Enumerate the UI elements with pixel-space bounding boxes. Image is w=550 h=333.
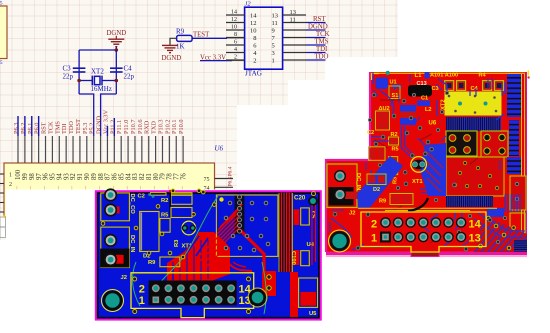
- svg-text:P6.5: P6.5: [228, 176, 234, 186]
- svg-text:3: 3: [272, 50, 275, 57]
- U6 right pins 75,74: [215, 178, 234, 180]
- svg-text:16MHz: 16MHz: [91, 85, 112, 93]
- node junction top right: [115, 48, 119, 52]
- pin 8: [226, 37, 245, 39]
- svg-text:J2: J2: [349, 211, 355, 217]
- svg-text:C20: C20: [294, 194, 306, 201]
- DC_CO connector: [101, 193, 130, 221]
- wire TEST to J2 pin8: [192, 37, 227, 39]
- svg-text:R9: R9: [176, 28, 185, 36]
- XT1 crystal: [182, 221, 196, 235]
- svg-text:C3: C3: [432, 86, 439, 92]
- svg-text:1: 1: [272, 58, 275, 65]
- svg-text:2: 2: [139, 284, 145, 296]
- svg-text:13: 13: [290, 9, 297, 16]
- svg-text:10: 10: [250, 28, 257, 35]
- svg-text:R5: R5: [161, 213, 169, 219]
- svg-text:XT2: XT2: [91, 68, 104, 76]
- DC_IN connector: [327, 164, 357, 208]
- svg-text:8: 8: [253, 35, 256, 42]
- U4 area: [294, 250, 300, 265]
- blue trace fan bottom right: [474, 216, 527, 252]
- pin 5: [283, 44, 306, 46]
- svg-text:8: 8: [234, 32, 237, 38]
- svg-text:11: 11: [290, 17, 296, 24]
- wire crystal right down to pin 88: [101, 94, 117, 136]
- U6 top pins: [13, 109, 187, 180]
- top edge partial silk boxes: [151, 193, 167, 196]
- svg-text:XT1: XT1: [412, 179, 423, 185]
- svg-text:S1: S1: [392, 93, 399, 99]
- crystal XT2: [79, 68, 116, 94]
- red band below stripes: [290, 272, 298, 317]
- svg-text:|: |: [44, 185, 45, 190]
- svg-text:6: 6: [253, 43, 257, 50]
- green ratsnest curves: [150, 196, 218, 298]
- svg-text:DGND: DGND: [162, 55, 182, 62]
- capacitor C3: [63, 65, 86, 81]
- ground DGND (under R9): [162, 45, 182, 62]
- svg-text:10: 10: [231, 25, 237, 31]
- red trace bars into J2: [173, 240, 208, 281]
- D2: [367, 174, 386, 185]
- svg-text:R4: R4: [479, 73, 487, 79]
- svg-text:5: 5: [272, 43, 275, 50]
- U5 box: [299, 278, 318, 307]
- svg-text:75: 75: [204, 177, 210, 183]
- pin 9: [283, 29, 306, 31]
- node junction mid left: [77, 79, 81, 83]
- svg-text:L2: L2: [425, 107, 432, 113]
- svg-text:U6: U6: [429, 120, 437, 126]
- svg-text:JTAG: JTAG: [245, 70, 262, 78]
- svg-text:14: 14: [231, 10, 237, 16]
- small window fragment at left edge over white: [0, 215, 5, 237]
- wire C3 branch vertical: [78, 50, 80, 94]
- svg-text:2: 2: [253, 58, 256, 65]
- white margin of red pcb image: [237, 80, 550, 285]
- svg-text:1K: 1K: [176, 43, 185, 51]
- svg-text:DGND: DGND: [308, 24, 328, 31]
- svg-text:11: 11: [272, 20, 278, 27]
- net labels right of J2: [308, 16, 330, 61]
- svg-text:12: 12: [231, 17, 237, 23]
- XT1 (red board): [411, 157, 427, 173]
- svg-text:13: 13: [272, 13, 279, 20]
- right edge connector bars: [507, 74, 521, 117]
- svg-text:TMS: TMS: [315, 39, 329, 46]
- svg-text:P10.0: P10.0: [178, 119, 185, 134]
- svg-text:|: |: [17, 185, 18, 190]
- svg-text:J2: J2: [121, 275, 127, 281]
- pin 7: [283, 37, 306, 39]
- main IC outline U3 (blue pcb): [216, 195, 278, 256]
- svg-text:4: 4: [234, 47, 237, 53]
- svg-text:76: 76: [180, 173, 187, 180]
- node junction mid right: [115, 79, 119, 83]
- svg-text:|: |: [58, 185, 59, 190]
- pin 2: [226, 59, 245, 61]
- blue diagonal band: [357, 156, 403, 208]
- D2 big outline: [140, 212, 159, 252]
- svg-text:C100: C100: [290, 251, 296, 265]
- svg-text:5: 5: [0, 61, 3, 66]
- svg-text:|: |: [168, 185, 169, 190]
- pin 14: [226, 14, 245, 16]
- board outline: [326, 72, 527, 254]
- svg-text:L1: L1: [415, 73, 423, 79]
- J2 pad rows (red board): [380, 217, 466, 242]
- pin 3: [283, 52, 306, 54]
- pin 10: [226, 29, 245, 31]
- svg-text:TDI: TDI: [316, 46, 328, 53]
- svg-text:|: |: [127, 185, 128, 190]
- pin 13: [283, 14, 306, 16]
- svg-text:2: 2: [371, 219, 377, 231]
- svg-text:A101 A100: A101 A100: [430, 73, 458, 79]
- svg-text:R9: R9: [379, 198, 386, 204]
- pin 1: [283, 59, 306, 61]
- J2 pin rows: [226, 9, 306, 65]
- scattered vias blue board: [101, 189, 216, 259]
- white margin of blue pcb image: [6, 190, 323, 333]
- edge marks outside right edge: [528, 71, 530, 76]
- pin 4: [226, 52, 245, 54]
- pin 11: [283, 22, 306, 24]
- svg-text:|: |: [154, 185, 155, 190]
- red diagonal trace bundle into IC: [235, 196, 245, 235]
- capacitor C4: [110, 65, 135, 81]
- svg-text:9: 9: [272, 28, 275, 35]
- svg-text:14: 14: [239, 284, 252, 296]
- J2 pad rows (blue board): [151, 283, 161, 293]
- svg-text:R3: R3: [174, 239, 180, 247]
- svg-text:|: |: [182, 185, 183, 190]
- svg-text:12: 12: [250, 20, 257, 27]
- blue trace texture: [331, 73, 505, 239]
- small outline right of D2: [160, 218, 170, 232]
- wire Vcc to J2 pin2: [200, 60, 232, 62]
- S1 / C1 small parts: [389, 86, 400, 99]
- ground DGND (top, crystal): [107, 30, 127, 47]
- scattered vias: [333, 93, 492, 251]
- svg-text:C2: C2: [367, 130, 374, 136]
- svg-text:TDO: TDO: [315, 54, 329, 61]
- svg-text:4: 4: [253, 50, 257, 57]
- svg-text:2: 2: [9, 182, 12, 188]
- misc blue patches and vias right-middle: [487, 208, 504, 217]
- J2 corner vias: [133, 277, 251, 314]
- IC U6 top pin row (red pcb): [446, 117, 501, 131]
- svg-text:13: 13: [469, 233, 481, 245]
- yellow copper zone C4 area: [445, 92, 502, 116]
- blue signal traces texture: [330, 74, 504, 250]
- svg-text:|: |: [85, 185, 86, 190]
- svg-text:U5: U5: [309, 311, 317, 317]
- svg-text:DC_CO: DC_CO: [129, 194, 135, 215]
- svg-text:|: |: [30, 185, 31, 190]
- svg-text:1: 1: [9, 173, 12, 179]
- DC_IN connector: [101, 227, 130, 267]
- C5 area: [294, 209, 300, 225]
- svg-text:22p: 22p: [124, 72, 135, 80]
- svg-text:C2: C2: [138, 194, 145, 200]
- svg-text:2: 2: [234, 55, 237, 61]
- vertical stripe bundle right of IC: [280, 193, 293, 272]
- svg-text:C3: C3: [63, 65, 72, 73]
- svg-text:|: |: [72, 185, 73, 190]
- svg-text:6: 6: [234, 40, 237, 46]
- right side boxes: [510, 176, 526, 210]
- U1: [376, 78, 389, 90]
- svg-text:DC_IN: DC_IN: [129, 235, 135, 252]
- svg-text:R2: R2: [161, 198, 168, 204]
- partial connector at left edge: [0, 6, 7, 59]
- blue region left of ic: [420, 143, 446, 196]
- red copper pour center-bottom: [167, 232, 230, 282]
- svg-text:14: 14: [469, 219, 482, 231]
- connector J2 (JTAG): [245, 1, 283, 78]
- red column right of J2: [262, 271, 276, 296]
- svg-text:TEST: TEST: [193, 32, 210, 39]
- svg-text:14: 14: [250, 13, 257, 20]
- yellow traces: [358, 207, 497, 209]
- tiny red pin names inside U6 below numbers: [17, 185, 183, 190]
- svg-text:22p: 22p: [63, 73, 74, 81]
- mounting hole bottom-left: [102, 290, 124, 312]
- svg-text:U4: U4: [307, 242, 315, 248]
- svg-text:DC_IN: DC_IN: [355, 173, 361, 190]
- board body with magenta border: [95, 190, 322, 320]
- svg-text:U6: U6: [215, 145, 224, 153]
- pin 12: [226, 22, 245, 24]
- svg-text:1: 1: [371, 233, 377, 245]
- svg-text:7: 7: [272, 35, 276, 42]
- pin 6: [226, 44, 245, 46]
- top silk strip: [372, 72, 525, 74]
- mounting hole bottom-right: [248, 288, 267, 307]
- second red bundle lower-left of IC: [196, 237, 227, 268]
- svg-text:TCK: TCK: [316, 31, 330, 38]
- IC U6: [4, 145, 224, 218]
- U6 left pins 1,2,3: [0, 174, 4, 212]
- magenta board edges: [326, 72, 370, 252]
- svg-text:D2: D2: [373, 187, 380, 193]
- svg-text:P6.4: P6.4: [228, 166, 234, 176]
- svg-text:1: 1: [139, 295, 145, 307]
- wire top rail: [79, 49, 116, 51]
- svg-text:R5: R5: [392, 147, 399, 153]
- svg-text:|: |: [99, 185, 100, 190]
- thick red trace from IC to bottom: [240, 230, 264, 281]
- svg-text:C4: C4: [471, 86, 479, 92]
- wire crystal left down to pin 89: [79, 94, 94, 136]
- wire ground to top rail: [115, 47, 117, 50]
- right side net wires (blue): [306, 23, 326, 61]
- svg-text:RST: RST: [313, 16, 326, 23]
- svg-text:R9: R9: [148, 260, 156, 266]
- wire C4 branch vertical: [115, 50, 117, 94]
- red traces top-right of J2: [228, 262, 252, 271]
- resistor R9: [176, 28, 192, 51]
- mounting hole: [329, 230, 351, 252]
- svg-text:|: |: [140, 185, 141, 190]
- IC pad column and dots: [224, 195, 270, 252]
- wire R9 left to ground: [170, 38, 177, 45]
- wire stubs on pins 100-97: [18, 116, 114, 136]
